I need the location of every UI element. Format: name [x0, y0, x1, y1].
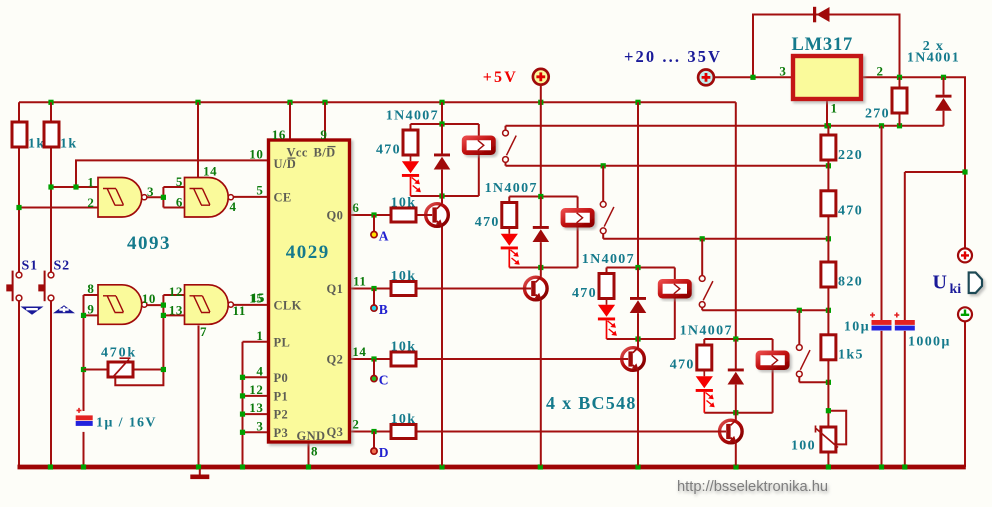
wire 270 resistor stubs	[899, 77, 901, 126]
junction net S1	[16, 205, 21, 210]
wire 4093 GND pin 7 to ground rail	[198, 326, 200, 466]
wire 1000u cap to ground	[904, 331, 906, 466]
wire channel 3 bottom rail	[607, 338, 675, 340]
svg-text:P2: P2	[274, 408, 289, 422]
ground symbol	[190, 469, 209, 479]
svg-text:13: 13	[249, 400, 263, 415]
svg-text:2: 2	[877, 63, 884, 78]
wire S1 to gate1 pin2	[19, 207, 98, 209]
wire ADJ to 10u cap	[881, 126, 883, 320]
electrolytic capacitor C3 1000u	[894, 313, 915, 331]
svg-text:Q2: Q2	[327, 353, 344, 367]
junctions channel 3	[635, 265, 640, 342]
resistor R 470 ch3	[572, 274, 614, 301]
resistor R 220	[821, 135, 863, 163]
wire RC node to 470k pot left	[84, 369, 109, 371]
IC 4029 counter	[269, 140, 350, 443]
tap wire 470/820	[603, 238, 828, 240]
junctions P0-P3	[240, 375, 245, 435]
svg-text:10k: 10k	[391, 269, 417, 284]
junctions tap3	[797, 308, 831, 313]
svg-text:S1: S1	[22, 258, 38, 273]
svg-text:4029: 4029	[286, 242, 330, 263]
wire 470k pot right and wiper loop	[115, 370, 163, 386]
resistor R 470 ch4	[670, 345, 712, 372]
net S2 upper	[50, 102, 52, 272]
wire 470 to LED stub ch1	[410, 155, 412, 161]
wire 4029 output Q3 to base ch4	[350, 431, 727, 433]
wire relay coil stubs ch2	[577, 197, 579, 268]
svg-text:1000µ: 1000µ	[908, 335, 951, 350]
svg-text:1: 1	[256, 328, 263, 343]
wire relay coil stubs ch4	[772, 339, 774, 413]
svg-text:470: 470	[838, 204, 863, 219]
svg-text:1: 1	[831, 100, 838, 115]
junction pot right	[161, 367, 166, 372]
junction Q1 node	[371, 286, 376, 291]
svg-text:+5V: +5V	[483, 69, 518, 86]
svg-text:10µ: 10µ	[844, 320, 870, 335]
LED LED2	[501, 234, 520, 265]
LED LED4	[696, 376, 715, 407]
junction Q0 node	[371, 212, 376, 217]
NAND gate U1b (4093 Schmitt)	[185, 178, 234, 218]
wire +5V feed channel 2	[540, 102, 542, 196]
relay coil K3	[660, 281, 689, 296]
wire +5V feed channel 4	[735, 102, 737, 339]
relay coil K2	[563, 210, 592, 225]
svg-text:14: 14	[352, 344, 366, 359]
wire emitter ch4 to ground rail	[735, 443, 737, 466]
wire node D stub	[373, 432, 375, 448]
net LM317 output pin2	[861, 77, 965, 248]
svg-text:1N4007: 1N4007	[582, 252, 635, 267]
wire 4029 B/D pin9	[324, 102, 326, 140]
tap wire 1k5/100	[799, 381, 828, 383]
wire 100 trimmer wiper loop	[828, 411, 846, 445]
resistor R 1k5	[821, 335, 864, 363]
svg-text:1k: 1k	[60, 136, 78, 151]
svg-text:11: 11	[233, 303, 246, 318]
svg-text:1k5: 1k5	[838, 348, 864, 363]
junctions on ground rail	[48, 464, 908, 469]
wire 4093 Vcc pin 14	[197, 102, 199, 177]
wire +5V symbol stub	[540, 85, 542, 103]
resistor R 470 (chain)	[821, 191, 863, 219]
output + terminal	[958, 248, 972, 262]
wire diode D2 stubs	[943, 77, 945, 126]
wire relay coil stubs ch1	[478, 124, 480, 196]
wire ground bus rail	[18, 465, 966, 470]
junctions channel 1	[439, 121, 444, 198]
wire S1 bottom to ground rail	[18, 301, 20, 466]
junctions LM317 output	[897, 75, 946, 80]
wire channel 1 top rail	[411, 123, 479, 125]
tap wire 820/1k5	[702, 309, 828, 311]
wire emitter ch2 to ground rail	[540, 300, 542, 466]
relay contact switch contact K1	[503, 130, 517, 162]
wire LED cathode to collector rail ch3	[606, 320, 608, 339]
svg-text:CLK: CLK	[274, 298, 302, 312]
wire relay contact stubs ch1	[505, 126, 507, 166]
svg-text:9: 9	[320, 127, 327, 142]
wire flyback diode stubs ch2	[540, 197, 542, 268]
wire 4029 output Q1 to base ch2	[350, 288, 532, 290]
junction output net	[962, 169, 967, 174]
wire +20V input to LM317 pin3	[714, 76, 793, 78]
wire emitter ch3 to ground rail	[637, 370, 639, 466]
wire 470 resistor top stub ch2	[508, 197, 510, 203]
LED LED1	[402, 161, 421, 192]
junction LM317 input	[750, 75, 755, 80]
logic +5V top rail	[19, 101, 736, 103]
svg-text:470k: 470k	[101, 346, 137, 361]
wire flyback diode stubs ch4	[735, 339, 737, 413]
wire 470 resistor top stub ch4	[703, 339, 705, 345]
wire collector ch2	[540, 268, 542, 278]
S2 up/plus arrow icon	[53, 305, 75, 313]
svg-text:270: 270	[865, 107, 890, 122]
wire LED cathode to collector rail ch2	[508, 249, 510, 267]
svg-text:P1: P1	[274, 389, 289, 403]
junctions tap2	[700, 236, 831, 241]
svg-text:470: 470	[572, 286, 597, 301]
junctions channel 4	[733, 336, 738, 415]
wire +5V feed channel 1	[441, 102, 443, 124]
svg-text:4: 4	[256, 363, 263, 378]
junction Q3 node	[371, 429, 376, 434]
svg-text:5: 5	[176, 174, 183, 189]
net 4029 PL,P0-P3 to ground	[243, 342, 269, 466]
svg-text:Q3: Q3	[327, 425, 344, 439]
svg-text:P0: P0	[274, 371, 289, 385]
wire LED cathode to collector rail ch4	[703, 392, 705, 413]
svg-text:10k: 10k	[391, 339, 417, 354]
junction tap4	[826, 380, 831, 385]
svg-text:LM317: LM317	[792, 35, 854, 55]
svg-text:1N4001: 1N4001	[907, 51, 960, 66]
svg-text:1N4007: 1N4007	[386, 109, 439, 124]
svg-text:12: 12	[249, 382, 263, 397]
svg-text:1N4007: 1N4007	[680, 324, 733, 339]
junctions RC node	[81, 313, 86, 372]
tap wire 220/470	[506, 165, 829, 167]
node C	[371, 372, 389, 387]
svg-text:4: 4	[230, 199, 237, 214]
node D	[371, 445, 389, 460]
svg-text:100: 100	[791, 439, 816, 454]
diode D2 1N4001 (adj protection)	[935, 95, 952, 111]
diode D1 1N4001 (input protection)	[813, 7, 830, 22]
svg-text:C: C	[379, 372, 389, 387]
wire 4029 output Q0 to base ch1	[350, 214, 433, 216]
svg-text:3: 3	[256, 418, 263, 433]
relay contact switch contact K2	[600, 201, 614, 233]
S1 down/minus arrow icon	[21, 307, 44, 315]
wire node C stub	[373, 359, 375, 375]
net gate3 inputs / RC node	[84, 295, 99, 411]
net S2 to gate1 pin1 and 4029 U/D	[51, 160, 269, 187]
LED LED3	[598, 305, 617, 336]
wire node A stub	[373, 215, 375, 231]
wire node B stub	[373, 289, 375, 305]
transistor Q2 (BC548 NPN)	[525, 277, 548, 300]
svg-text:2: 2	[352, 417, 359, 432]
svg-text:Q1: Q1	[327, 282, 344, 296]
svg-text:B/D: B/D	[314, 146, 336, 160]
wire 470 to LED stub ch4	[703, 370, 705, 376]
svg-text:470: 470	[670, 357, 695, 372]
wire 470 to LED stub ch3	[606, 299, 608, 305]
svg-text:4 x BC548: 4 x BC548	[546, 393, 637, 413]
junctions tap1	[601, 163, 831, 168]
junctions on +5V rail	[48, 100, 640, 105]
resistor R 10k ch2	[391, 269, 417, 296]
wire channel 2 bottom rail	[509, 267, 577, 269]
wire 10u cap to ground	[881, 331, 883, 466]
net S1 upper (1k pull-up to S1 top)	[18, 102, 20, 272]
resistor R 10k ch4	[391, 412, 417, 439]
svg-text:Q0: Q0	[327, 209, 344, 223]
svg-text:470: 470	[376, 142, 401, 157]
power terminal +20..35V input	[698, 70, 714, 86]
svg-text:8: 8	[87, 281, 94, 296]
net gate1 output to gate2 inputs	[145, 187, 185, 208]
wire emitter ch1 to ground rail	[441, 226, 443, 466]
svg-text:11: 11	[353, 274, 366, 289]
svg-text:220: 220	[838, 148, 863, 163]
wire 4029 output Q2 to base ch3	[350, 358, 629, 360]
wire channel 1 bottom rail	[411, 195, 479, 197]
wire gate4 output to 4029 CLK	[232, 304, 269, 306]
svg-text:10k: 10k	[391, 412, 417, 427]
svg-text:1N4007: 1N4007	[485, 181, 538, 196]
svg-text:6: 6	[176, 194, 183, 209]
svg-text:A: A	[379, 228, 389, 243]
svg-text:14: 14	[203, 164, 217, 179]
LM317 ADJ rail	[506, 125, 944, 127]
electrolytic capacitor C2 10u	[870, 313, 892, 331]
transistor Q1 (BC548 NPN)	[426, 204, 449, 227]
svg-text:8: 8	[311, 444, 318, 459]
wire LM317 ADJ pin1	[826, 99, 828, 126]
resistor R2 1k	[44, 122, 78, 151]
svg-text:http://bsselektronika.hu: http://bsselektronika.hu	[677, 479, 828, 495]
wire relay contact stubs ch2	[602, 166, 604, 239]
resistor R 470 ch1	[376, 130, 418, 157]
wire relay contact stubs ch4	[798, 310, 800, 382]
svg-text:ki: ki	[950, 282, 962, 297]
regulator LM317	[792, 35, 862, 99]
wire collector ch4	[735, 413, 737, 421]
svg-text:12: 12	[169, 284, 183, 299]
node B	[371, 302, 388, 317]
label U ki output	[933, 272, 962, 298]
wire S2 bottom to ground rail	[50, 301, 52, 466]
transistor Q3 (BC548 NPN)	[622, 348, 645, 371]
svg-text:10: 10	[249, 146, 263, 161]
junction Q2 node	[371, 356, 376, 361]
svg-text:16: 16	[272, 127, 286, 142]
resistor R 270	[865, 88, 907, 122]
diode D 1N4007 ch3	[630, 297, 647, 313]
wire output to 1000u cap	[905, 172, 965, 320]
svg-text:470: 470	[475, 215, 500, 230]
wire relay contact stubs ch3	[701, 239, 703, 310]
svg-text:GND: GND	[297, 429, 326, 443]
wire channel 2 top rail	[509, 196, 577, 198]
diode D 1N4007 ch2	[533, 226, 550, 242]
svg-text:4093: 4093	[127, 233, 171, 254]
output arrow icon	[969, 273, 982, 294]
diode D 1N4007 ch4	[728, 369, 745, 385]
NAND gate U1d (4093 Schmitt)	[185, 285, 234, 325]
relay contact switch contact K3	[699, 276, 713, 308]
svg-text:13: 13	[169, 302, 183, 317]
wire +5V feed channel 3	[637, 102, 639, 267]
svg-text:S2: S2	[54, 258, 70, 273]
wire channel 4 top rail	[704, 338, 772, 340]
potentiometer 470k	[101, 346, 137, 378]
net gate3 output to gate4 inputs / pot right	[145, 295, 185, 370]
wire flyback diode stubs ch3	[637, 268, 639, 340]
wire gate2 output to 4029 CE	[232, 196, 269, 198]
svg-text:D: D	[379, 445, 389, 460]
wire 4029 GND pin8	[308, 442, 310, 466]
svg-text:B: B	[379, 302, 388, 317]
wire output ground terminal	[964, 321, 966, 467]
resistor R 470 ch2	[475, 203, 517, 230]
svg-text:15: 15	[249, 290, 263, 305]
wire channel 3 top rail	[607, 267, 675, 269]
diode D 1N4007 ch1	[434, 154, 451, 170]
junctions gate3 output net	[161, 303, 166, 319]
resistor R 10k ch3	[391, 339, 417, 366]
node A	[371, 228, 389, 243]
NAND gate U1c (4093 Schmitt)	[98, 285, 147, 325]
junctions net S2	[48, 184, 78, 189]
svg-text:7: 7	[200, 324, 207, 339]
svg-text:U/D: U/D	[274, 157, 297, 171]
output ground terminal	[958, 307, 972, 321]
wire 470 resistor top stub ch3	[606, 268, 608, 274]
push button S1	[6, 258, 38, 301]
push button S2	[38, 258, 70, 301]
svg-text:2: 2	[87, 195, 94, 210]
svg-text:1: 1	[87, 175, 94, 190]
resistor R1 1k	[12, 122, 46, 151]
svg-text:1µ / 16V: 1µ / 16V	[96, 416, 157, 431]
relay coil K1	[464, 138, 493, 153]
transistor Q4 (BC548 NPN)	[720, 420, 743, 443]
svg-text:PL: PL	[274, 335, 291, 349]
wire collector ch3	[637, 339, 639, 348]
relay contact switch contact K4	[796, 345, 810, 377]
junctions channel 2	[538, 194, 543, 270]
junction trimmer wiper	[826, 408, 831, 413]
svg-text:5: 5	[256, 182, 263, 197]
svg-text:10k: 10k	[391, 195, 417, 210]
wire feedback resistor chain	[827, 126, 829, 466]
svg-text:3: 3	[779, 63, 786, 78]
wire collector ch1	[441, 196, 443, 204]
relay coil K4	[758, 353, 787, 368]
svg-text:9: 9	[87, 302, 94, 317]
svg-text:10: 10	[142, 291, 156, 306]
svg-text:6: 6	[352, 200, 359, 215]
wire 470 to LED stub ch2	[508, 228, 510, 234]
wire LED cathode to collector rail ch1	[410, 177, 412, 196]
svg-text:820: 820	[838, 275, 863, 290]
junction gate1 output node	[161, 195, 166, 200]
wire 1u cap bottom to ground rail	[83, 432, 85, 466]
wire channel 4 bottom rail	[704, 412, 772, 414]
wire 470 resistor top stub ch1	[410, 124, 412, 130]
svg-text:CE: CE	[274, 191, 292, 205]
resistor R 10k ch1	[391, 195, 417, 222]
trimmer 100	[791, 426, 838, 454]
svg-text:+20 ... 35V: +20 ... 35V	[624, 47, 722, 66]
svg-text:P3: P3	[274, 426, 289, 440]
resistor R 820	[821, 262, 863, 290]
junctions on ADJ rail	[824, 123, 902, 128]
wire input to protection diode D1 loop	[753, 15, 900, 78]
wire flyback diode stubs ch1	[441, 124, 443, 196]
wire 4029 Vcc pin16	[289, 102, 291, 140]
power terminal +5V	[533, 69, 549, 85]
svg-text:U: U	[933, 272, 947, 294]
wire relay coil stubs ch3	[674, 268, 676, 340]
svg-text:3: 3	[147, 184, 154, 199]
electrolytic capacitor C1 1u/16V	[76, 408, 93, 426]
NAND gate U1a (4093 Schmitt)	[98, 178, 147, 218]
